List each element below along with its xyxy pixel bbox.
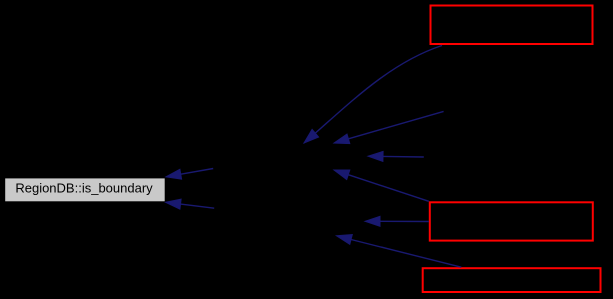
wire edge E2: hidden caller -> mid node [334,111,444,143]
wire edge E1: caller-1 -> mid node (curved) [304,46,442,144]
wire edge E4: caller-2 -> mid node [334,170,429,201]
node caller-1 (truncated, red border, top) [431,6,593,45]
wire edge E7: mid node -> RegionDB::is_boundary [166,169,213,180]
svg-text:RegionDB::is_boundary: RegionDB::is_boundary [15,181,153,196]
node caller-3 (truncated, red border, bottom) [423,268,601,292]
wire edge E3: hidden caller -> mid node (horizontal) [368,151,424,161]
node RegionDB::is_boundary (current node, gray) [5,178,165,201]
wire edge E8: mid node 2 -> RegionDB::is_boundary [166,199,215,209]
wire edge E5: caller-2 -> mid node 2 (horizontal) [365,216,429,226]
node caller-2 (truncated, red border, middle) [430,202,593,240]
wire edge E6: caller-3 -> mid node 2 [337,235,462,268]
